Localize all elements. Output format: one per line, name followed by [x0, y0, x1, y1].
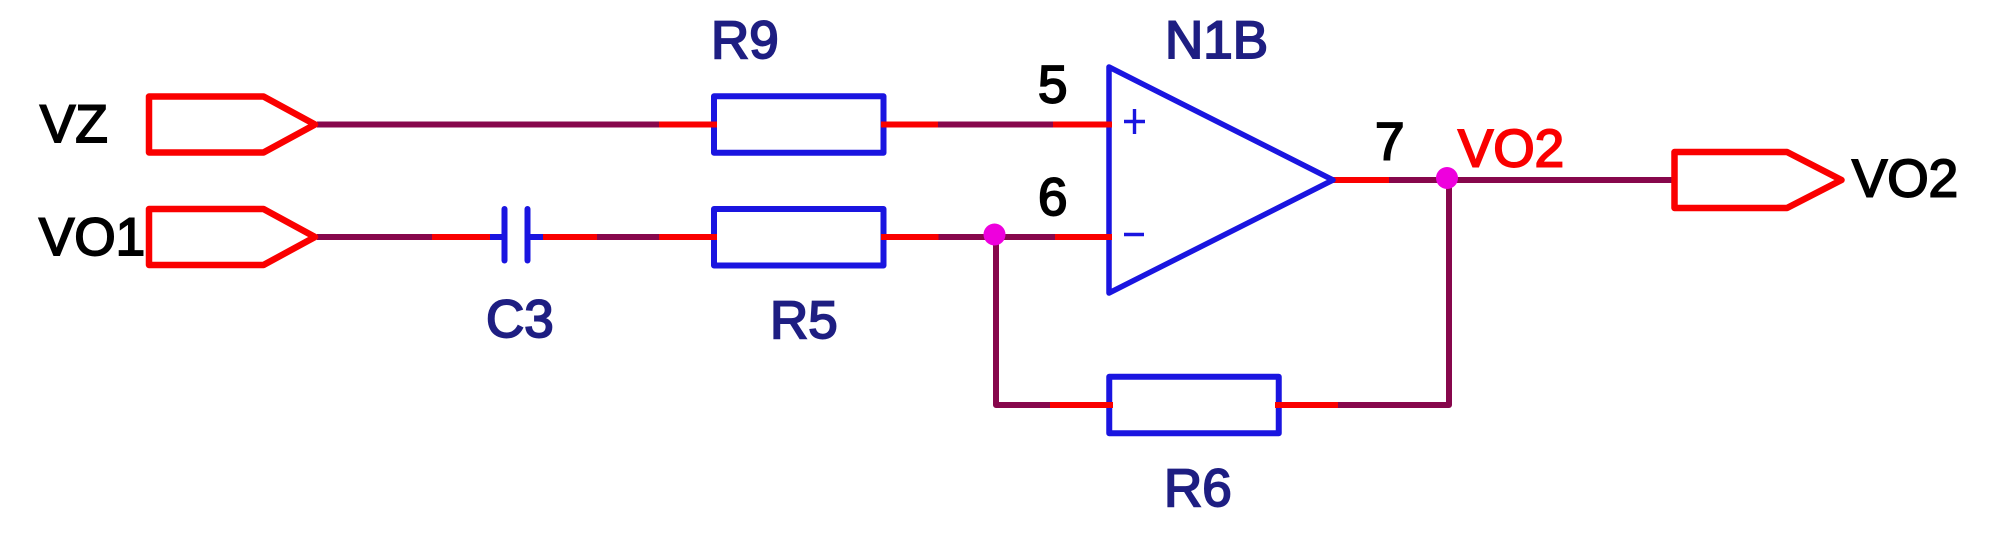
svg-text:R6: R6: [1164, 459, 1232, 518]
svg-text:VO1: VO1: [39, 208, 145, 267]
svg-text:R5: R5: [770, 291, 838, 350]
svg-text:7: 7: [1375, 113, 1404, 172]
svg-text:VZ: VZ: [40, 95, 108, 154]
svg-text:N1B: N1B: [1165, 11, 1268, 70]
svg-text:VO2: VO2: [1852, 150, 1958, 209]
svg-text:R9: R9: [711, 11, 779, 70]
svg-text:C3: C3: [486, 290, 554, 349]
svg-text:6: 6: [1038, 168, 1067, 227]
svg-text:5: 5: [1038, 56, 1067, 115]
svg-text:VO2: VO2: [1458, 120, 1564, 179]
